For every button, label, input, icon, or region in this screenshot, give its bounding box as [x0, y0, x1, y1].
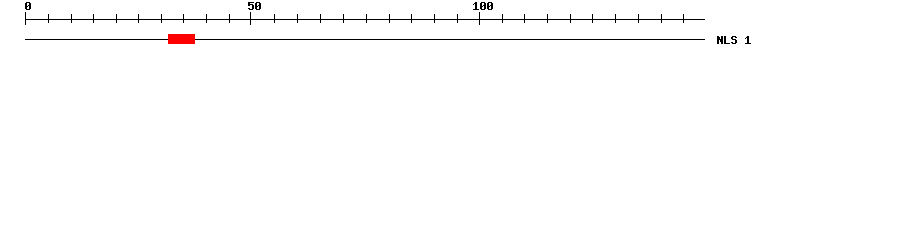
ruler major ticks at 0, 50, 100: [25, 12, 26, 25]
ruler minor ticks every 5: [48, 14, 49, 23]
background: [0, 0, 900, 58]
ruler label 100: [473, 2, 493, 10]
ruler label 0: [25, 2, 31, 10]
ruler axis line: [25, 19, 705, 20]
label NLS 1: [717, 36, 751, 44]
wire sequence line: [25, 39, 705, 40]
node NLS 1 feature box: [168, 34, 195, 44]
ruler label 50: [248, 2, 261, 10]
